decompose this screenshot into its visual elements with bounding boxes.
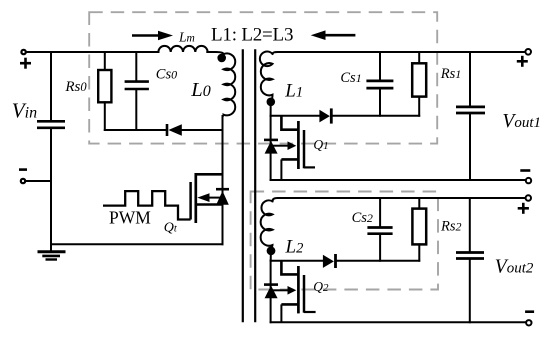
svg-text:Cs2: Cs2 <box>352 210 373 226</box>
svg-text:L0: L0 <box>190 79 210 101</box>
svg-text:Rs2: Rs2 <box>440 218 462 234</box>
svg-text:Q2: Q2 <box>313 279 329 294</box>
svg-text:Qt: Qt <box>164 221 178 236</box>
svg-text:Rs0: Rs0 <box>64 79 87 95</box>
svg-text:Cs0: Cs0 <box>156 66 177 82</box>
svg-text:L1: L1 <box>284 80 303 101</box>
svg-text:Lm: Lm <box>178 30 195 45</box>
svg-text:Vout2: Vout2 <box>495 256 534 277</box>
svg-text:L1: L2=L3: L1: L2=L3 <box>211 24 293 45</box>
svg-text:Rs1: Rs1 <box>440 66 462 82</box>
svg-text:PWM: PWM <box>109 207 151 227</box>
svg-text:Vout1: Vout1 <box>502 111 541 132</box>
svg-text:Cs1: Cs1 <box>340 70 361 86</box>
svg-text:Q1: Q1 <box>313 137 328 152</box>
svg-text:L2: L2 <box>285 237 304 258</box>
